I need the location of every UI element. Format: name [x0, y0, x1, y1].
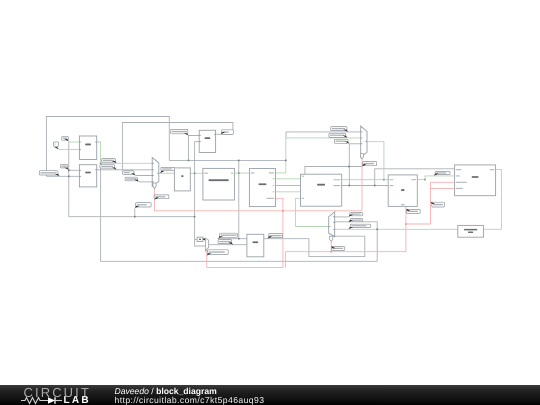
wire PC to IM — [190, 172, 203, 174]
wire adder1 out — [97, 142, 101, 163]
block Adder A2 — [79, 165, 96, 187]
junction clk cross — [348, 166, 350, 168]
wire mux1 out to PC — [159, 172, 175, 174]
wire mux3 out to adder4 — [209, 244, 247, 246]
net label IE_signals — [406, 209, 420, 214]
net label ID_pc — [62, 136, 69, 141]
wire rd_data vertical — [348, 144, 350, 186]
net label ID_branch_pc — [268, 234, 283, 239]
block Combinational Logic — [458, 225, 484, 237]
block PC register — [174, 168, 190, 191]
wire pc4 top loop — [122, 123, 232, 171]
wire id_pc vertical — [68, 141, 70, 217]
net label IF_instr_pc — [102, 159, 117, 164]
net label ID_pcincremented a3 — [171, 129, 189, 135]
wire instr tap down — [238, 160, 240, 238]
net label IF_rst_pin — [135, 203, 151, 209]
net label ID_pc_offset — [218, 240, 233, 245]
wire jump vertical — [285, 138, 287, 173]
junction alu in1 — [383, 179, 385, 181]
wire adder3 out — [216, 133, 233, 135]
block Decoder — [249, 169, 275, 207]
junction red mux4 — [330, 251, 332, 253]
net label IF_pcincremented — [39, 171, 59, 177]
wire adder2 in2 — [46, 175, 79, 177]
net label IF_pc4 out — [221, 130, 234, 135]
net label IM_signals — [431, 202, 445, 207]
wire instr bus — [169, 159, 285, 161]
mux M1 pc-select — [152, 158, 159, 187]
junction mux1 green — [100, 163, 102, 165]
wire regfile out1 to alu — [342, 179, 389, 181]
wire mem data red — [431, 187, 455, 189]
junction adder2 in2 — [68, 176, 70, 178]
wire regfile clk — [305, 167, 362, 175]
wire mux2 select red — [361, 159, 363, 211]
wire alu op red — [405, 206, 407, 251]
net label ID_pcincremented a4 — [218, 233, 237, 238]
net label IE_ALU_out mem — [434, 172, 450, 176]
net label IF_pc — [60, 165, 68, 170]
junction pc bus — [194, 216, 196, 218]
wire mux1 in1 green — [101, 162, 153, 164]
mux M3 offset-select — [205, 238, 208, 251]
wire decoder signals red — [207, 198, 283, 267]
junction red alu — [405, 223, 407, 225]
wire decoder jump out — [276, 172, 286, 174]
wire jump to mux2 — [286, 137, 361, 139]
wire pc-loop top — [46, 117, 169, 177]
net label const 1 — [54, 142, 59, 149]
wire adder2 out to mux1 — [97, 169, 153, 171]
wire adder3 in2 — [195, 141, 200, 143]
mux M4 writeback-select — [329, 212, 335, 237]
logo resistor and diode symbol — [21, 396, 67, 405]
mux M2 jump-select — [361, 126, 367, 157]
wire mux3 select red — [206, 251, 208, 268]
wire mem control red — [430, 182, 432, 224]
wire rs2 up to memory addr — [375, 169, 455, 186]
junction instr bus — [238, 160, 240, 162]
wire mem red link — [406, 223, 431, 225]
wire rst stub — [134, 208, 136, 216]
net label IF_branch_pc — [100, 165, 117, 170]
wire pc bus horizontal — [69, 216, 195, 218]
wire memory out loop — [335, 170, 502, 230]
wire decoder rs2 — [276, 191, 301, 193]
wire branch loop to mux4 — [264, 236, 365, 256]
net label MX_signals m2 — [362, 162, 377, 167]
net label IF_LinkedAddr — [331, 127, 348, 132]
wire mux1 in4 — [139, 181, 152, 183]
net label IF_next_pc — [160, 167, 175, 173]
junction adder2 in1 — [68, 170, 70, 172]
wire regfile rs2 to alu — [342, 185, 389, 187]
net label IF_pc4 — [123, 171, 136, 176]
CircuitLab logo text — [24, 385, 91, 400]
junction adder3 tap — [188, 160, 190, 162]
wire mem we red — [431, 181, 455, 183]
arrow shifter to mux3 — [202, 238, 206, 241]
wire adder1 in2 — [59, 148, 80, 150]
net label ID_jump_pc — [125, 177, 139, 182]
wire adder3 in1 tap — [189, 136, 200, 161]
wire decoder rs1 — [276, 178, 301, 180]
junction rd vertical — [349, 185, 351, 187]
net label ID_instr_pc — [349, 219, 363, 223]
footer bar — [0, 385, 540, 405]
block Instruction Memory — [203, 168, 235, 200]
wire mux2 out — [367, 142, 384, 180]
junction alu out — [424, 179, 426, 181]
block Memory — [455, 165, 496, 196]
wire pc tap vertical — [195, 142, 206, 246]
wire writeback to regfile — [296, 198, 329, 226]
net label IE_ALU_out m4 — [349, 213, 363, 217]
wire adder1 in1 — [69, 141, 80, 143]
wire adder4 in1 — [218, 238, 247, 240]
junction instr return — [376, 229, 378, 231]
wire IM to decoder — [234, 172, 249, 174]
wire red bottom bus — [285, 251, 406, 253]
junction adder4 in — [238, 238, 240, 240]
block ALU — [388, 175, 417, 207]
wire shift block in — [195, 238, 198, 240]
net label MX_signals m4 — [331, 246, 345, 251]
junction rs2 up — [374, 185, 376, 187]
junction rst — [134, 216, 136, 218]
block shifter — [197, 237, 203, 241]
junction red decoder — [282, 210, 284, 212]
wire red bus riser — [284, 252, 286, 268]
pin labels — [79, 134, 494, 205]
net label MX_signals m1 — [154, 195, 169, 200]
net label IM_signals copy — [207, 250, 228, 256]
wire red control bus — [154, 210, 362, 212]
junction pc out — [194, 173, 196, 175]
wire mux1 in3 — [136, 175, 153, 177]
junction bus end — [285, 160, 287, 162]
wire instr_pc return — [101, 163, 378, 261]
wire mux4 in1 — [335, 216, 349, 218]
block Adder A4 — [247, 234, 264, 256]
wire mux2 in1 — [286, 132, 361, 138]
block RegFile — [301, 174, 342, 206]
wire mux4 select red — [330, 242, 332, 252]
wire adder2 in1 — [69, 169, 80, 171]
block Adder A3 — [199, 130, 215, 152]
junction instr green — [238, 172, 240, 174]
net label IE_rd_data — [334, 139, 349, 144]
wire mux1 select red — [153, 189, 155, 211]
block Adder A1 — [79, 136, 96, 160]
net label MX_data_mem_out — [349, 224, 371, 229]
wire mux2 in3 — [349, 143, 360, 145]
wire alu out to memory — [417, 176, 454, 180]
net label ID_pc_jumpAddr — [329, 133, 347, 138]
wire decoder rd gray — [276, 184, 301, 186]
